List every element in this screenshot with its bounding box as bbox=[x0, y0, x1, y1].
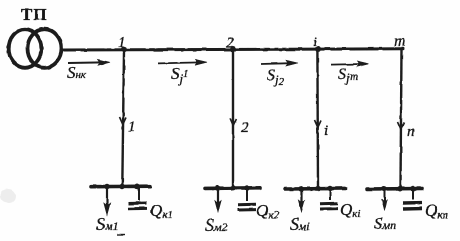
arrow load Sm1 bbox=[104, 187, 110, 215]
load bus bar i bbox=[285, 187, 346, 191]
label Sm1 bbox=[96, 214, 125, 235]
load bus bar 1 bbox=[91, 184, 150, 188]
arrow load Smi bbox=[298, 189, 304, 212]
label Smn bbox=[374, 214, 396, 233]
arrow Sj1 flow bbox=[158, 59, 207, 65]
label branch 2 bbox=[241, 120, 249, 136]
svg-text:i: i bbox=[313, 35, 317, 50]
load bus bar n bbox=[367, 187, 422, 191]
label Sj2 bbox=[267, 67, 285, 88]
label branch 1 bbox=[128, 119, 136, 135]
arrow Snk flow bbox=[68, 59, 110, 65]
node i bbox=[313, 35, 321, 52]
junction dots bar i bbox=[298, 186, 333, 192]
node m bbox=[394, 33, 406, 50]
svg-text:ТП: ТП bbox=[21, 5, 48, 24]
svg-text:n: n bbox=[407, 124, 415, 140]
label Qkn bbox=[425, 201, 448, 221]
label Smi bbox=[290, 214, 310, 234]
capacitor Qk1 bbox=[128, 187, 147, 209]
label Qki bbox=[340, 200, 360, 220]
svg-text:m: m bbox=[394, 33, 406, 50]
svg-text:i: i bbox=[324, 123, 328, 139]
svg-text:1: 1 bbox=[118, 35, 126, 51]
arrow load Sm2 bbox=[215, 189, 221, 213]
arrow tick branch n bbox=[398, 122, 405, 130]
arrow Sjm flow bbox=[331, 61, 369, 67]
capacitor Qkn bbox=[403, 189, 422, 209]
label Qk1 bbox=[150, 201, 173, 221]
svg-text:1: 1 bbox=[128, 119, 136, 135]
node 1 bbox=[118, 35, 127, 52]
label Sm2 bbox=[205, 215, 228, 235]
svg-text:2: 2 bbox=[226, 35, 234, 51]
junction dots bar n bbox=[381, 186, 416, 192]
arrow tick branch i bbox=[315, 120, 322, 128]
load bus bar 2 bbox=[205, 186, 260, 190]
wire feeder branch 2 bbox=[232, 50, 234, 188]
label TP (transformer substation) bbox=[21, 5, 48, 24]
label Sj1 bbox=[171, 64, 188, 86]
label branch i bbox=[324, 123, 328, 139]
junction dots bar 1 bbox=[104, 184, 140, 190]
arrow tick branch 1 bbox=[120, 117, 127, 125]
wire feeder branch 1 bbox=[122, 50, 124, 186]
label Qk2 bbox=[256, 201, 279, 221]
junction dots bar 2 bbox=[215, 185, 250, 191]
node 2 bbox=[226, 35, 236, 52]
capacitor Qki bbox=[320, 189, 338, 209]
wire feeder branch i bbox=[316, 50, 319, 188]
label Sjm bbox=[338, 66, 359, 85]
capacitor Qk2 bbox=[238, 188, 256, 210]
faint scan smudge left edge bbox=[0, 189, 16, 203]
label Snk bbox=[67, 63, 87, 82]
arrow load Smn bbox=[382, 189, 388, 211]
arrow tick branch 2 bbox=[230, 118, 236, 126]
wire feeder branch n bbox=[401, 49, 402, 188]
svg-text:2: 2 bbox=[241, 120, 249, 136]
label branch n bbox=[407, 124, 415, 140]
transformer T1 bbox=[9, 29, 62, 68]
wire main bus bbox=[63, 49, 404, 50]
arrow Sj2 flow bbox=[261, 60, 298, 66]
